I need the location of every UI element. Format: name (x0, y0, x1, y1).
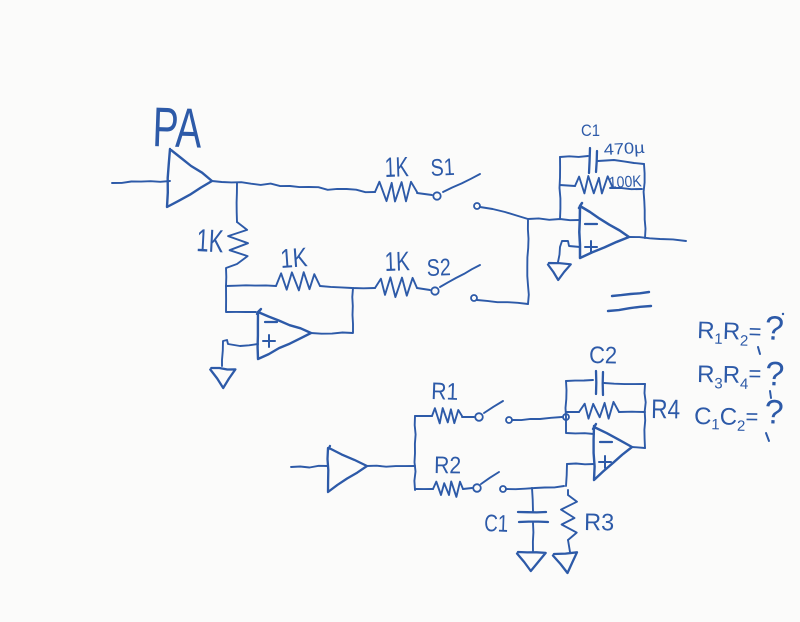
wire to capacitor C1 left plate (560, 156, 588, 157)
node junction at PA output (236, 183, 238, 222)
label R2 (434, 452, 461, 479)
switch S3 lever (R1 branch) (484, 401, 503, 413)
wire capacitor C1 branch vertical (532, 488, 533, 511)
wire input to buffer A2 (291, 466, 328, 468)
wire junction vertical S2 to S1 node (527, 220, 529, 304)
switch S4 lever (R2 branch) (481, 472, 499, 484)
wire S2 throw to junction (477, 300, 528, 304)
resistor R1 (432, 408, 462, 423)
label PA (152, 95, 204, 160)
label C1 (top) (581, 121, 600, 140)
wire left vertical into op-amp U2 (226, 286, 256, 312)
wire node to second row (226, 284, 276, 287)
resistor 1K (second row right) (375, 277, 417, 297)
label S2 (426, 254, 451, 282)
equals sign stroke 1 (612, 292, 649, 296)
wire to op-amp U3 plus input (567, 463, 594, 466)
wire U3 output to feedback (632, 447, 645, 448)
switch S1 lever (443, 174, 480, 192)
resistor 100K (575, 176, 612, 193)
wire to resistor R1 (415, 415, 432, 417)
switch S2 pole contact (431, 287, 438, 294)
wire PA output to resistor 1K (top row) (212, 181, 375, 192)
switch S3 throw contact (R1 branch) (506, 417, 512, 423)
wire left vertical to resistor R4 (566, 411, 579, 413)
resistor 1K vertical (226, 222, 248, 286)
svg-text:1K: 1K (196, 222, 225, 259)
wire resistor to switch S2 (417, 288, 430, 290)
svg-text:S1: S1 (430, 154, 455, 182)
svg-text:?: ? (763, 309, 785, 348)
wire U2 plus input to ground (222, 340, 258, 366)
svg-text:1K: 1K (279, 242, 308, 274)
node input junction vertical wire (414, 416, 415, 490)
svg-text:100K: 100K (608, 173, 642, 192)
resistor 1K (top row) (375, 182, 417, 202)
svg-text:470µ: 470µ (603, 140, 645, 159)
op-amp U2 plus input marking (263, 335, 275, 347)
svg-text:C1: C1 (581, 121, 600, 140)
svg-text:R1: R1 (431, 378, 459, 406)
op-amp PA buffer triangle (167, 149, 212, 207)
label 470u value (603, 140, 645, 159)
resistor R4 (579, 402, 619, 419)
label C1 (lower) (484, 510, 509, 538)
wire plus node vertical (566, 464, 567, 486)
op-amp U1 minus input marking (585, 223, 597, 225)
op-amp U3 plus input marking (599, 456, 611, 468)
svg-text:?: ? (765, 355, 785, 394)
wire summing node to op-amp U3 minus (566, 417, 594, 434)
wire capacitor C2 right plate to right vertical (604, 383, 645, 384)
svg-text:S2: S2 (426, 254, 451, 282)
capacitor C1 (lower) plates (518, 512, 548, 522)
switch S4 pole contact (R2 branch) (473, 484, 481, 492)
ground U2 plus input (210, 368, 235, 388)
wire U1 plus input to ground (558, 241, 580, 262)
wire R1 switch throw to summing node (512, 417, 562, 420)
label C2 (589, 342, 617, 369)
ground resistor R3 (553, 552, 577, 573)
op-amp buffer A2 triangle (328, 446, 368, 492)
op-amp U2 minus input marking (265, 321, 277, 323)
wire U2 output feedback (311, 288, 353, 334)
node summing junction contact (563, 414, 569, 420)
wire U1 output (629, 237, 686, 241)
wire left vertical to resistor 100K (560, 185, 575, 186)
wire to capacitor C2 left plate (566, 380, 593, 381)
feedback network right vertical wire (644, 164, 646, 238)
label R1R2 = ? (697, 309, 785, 354)
wire resistor R3 to ground (568, 540, 570, 552)
wire resistor R4 to right vertical (619, 411, 645, 413)
wire resistor R2 to switch (463, 488, 472, 489)
resistor R3 vertical (561, 490, 577, 540)
ink dot artifact (782, 313, 784, 315)
ground U1 plus input (548, 263, 571, 280)
svg-text:R4: R4 (651, 394, 681, 425)
svg-text:PA: PA (152, 95, 204, 160)
label R3 (584, 509, 614, 537)
capacitor C2 plates (596, 371, 603, 395)
ground capacitor C1 (517, 552, 546, 571)
wire input to PA buffer (112, 181, 170, 183)
switch S3 pole contact (R1 branch) (475, 413, 483, 421)
wire R2 switch throw to plus node (506, 486, 564, 489)
wire resistor to switch S1 (417, 193, 432, 195)
wire resistor 100K to right vertical (610, 188, 642, 189)
label C1C2 = ? (694, 393, 785, 441)
switch S1 pole contact (433, 192, 440, 199)
equals sign stroke 2 (608, 306, 651, 311)
switch S2 throw contact (471, 295, 477, 301)
svg-text:C2: C2 (589, 342, 617, 369)
label R1 (431, 378, 459, 406)
wire capacitor C1 right plate to right vertical (598, 160, 644, 164)
label 1K (vertical resistor) (196, 222, 225, 259)
feedback network U3 right vertical wire (644, 384, 645, 448)
label R4 (651, 394, 681, 425)
feedback network left vertical wire (559, 157, 562, 219)
node feedback junction (0, 0, 1, 1)
svg-text:1K: 1K (384, 151, 409, 183)
switch S2 lever (440, 265, 480, 287)
svg-text:R3: R3 (584, 509, 614, 537)
wire S1 throw to op-amp U1 inverting input (480, 207, 580, 220)
label 100K value (608, 173, 642, 192)
switch S1 throw contact (474, 203, 480, 209)
wire to resistor R2 (415, 488, 433, 490)
switch S4 throw contact (R2 branch) (500, 486, 506, 492)
feedback network U3 left vertical wire (566, 381, 567, 417)
wire capacitor C1 to ground (532, 523, 535, 551)
resistor R2 (433, 481, 463, 497)
resistor 1K (second row left) (276, 272, 320, 290)
capacitor C1 plates (589, 148, 597, 173)
op-amp U1 plus input marking (585, 241, 597, 253)
svg-text:?: ? (764, 393, 785, 432)
svg-text:1K: 1K (384, 246, 410, 277)
wire resistor R1 to switch (462, 416, 474, 418)
label 1K (top row) (384, 151, 409, 183)
wire buffer A2 output (367, 466, 415, 467)
label S1 (430, 154, 455, 182)
label R3R4 = ? (697, 355, 785, 398)
op-amp U2 triangle (257, 309, 311, 359)
svg-text:C1: C1 (484, 510, 509, 538)
op-amp U3 minus input marking (600, 441, 612, 443)
wire between 1K resistors second row (320, 286, 375, 288)
label 1K (second row left) (279, 242, 308, 274)
svg-text:R2: R2 (434, 452, 461, 479)
op-amp U1 triangle (579, 203, 629, 258)
op-amp U3 triangle (593, 424, 632, 480)
label 1K (second row right) (384, 246, 410, 277)
